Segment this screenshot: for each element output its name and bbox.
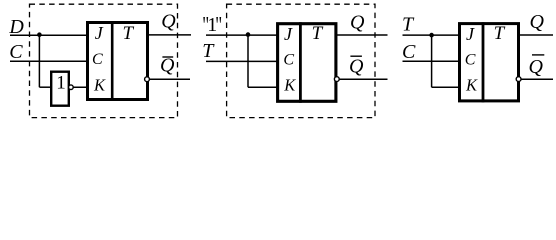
wire Q output (circuit 1)	[148, 34, 191, 36]
flip-flop U3 divider	[299, 22, 302, 103]
svg-text:Q: Q	[161, 11, 176, 33]
wire vertical branch to K (circuit 2)	[247, 35, 249, 87]
svg-text:K: K	[283, 76, 296, 95]
wire Qbar output (circuit 1)	[148, 78, 190, 80]
wire T input to J (circuit 3)	[403, 34, 461, 36]
svg-text:C: C	[465, 52, 476, 69]
svg-text:J: J	[466, 24, 475, 44]
junction dot on D wire	[37, 32, 42, 37]
wire D input	[10, 34, 87, 36]
svg-text:Q: Q	[350, 11, 365, 33]
svg-text:Q: Q	[349, 55, 364, 77]
junction dot on T wire (circuit 3)	[429, 33, 434, 38]
wire horizontal into K (circuit 2)	[248, 86, 277, 88]
junction dot on constant-1 wire	[246, 32, 251, 37]
wire C input (circuit 3)	[403, 60, 461, 62]
svg-text:C: C	[283, 52, 294, 69]
flip-flop U2 body	[88, 23, 148, 100]
wire T input to C (circuit 2)	[206, 60, 277, 62]
wire vertical branch from D junction	[38, 35, 40, 87]
wire vertical branch to K (circuit 3)	[431, 35, 433, 87]
wire Qbar output (circuit 3)	[519, 78, 554, 80]
Qbar output bubble (circuit 1)	[145, 77, 150, 82]
svg-text:T: T	[312, 23, 324, 44]
wire Q output (circuit 2)	[336, 34, 388, 36]
inverter output bubble	[69, 85, 74, 90]
flip-flop U2 divider	[111, 21, 114, 101]
flip-flop U3 body	[278, 24, 336, 102]
wire inverter output to K	[71, 86, 87, 88]
Qbar output bubble (circuit 2)	[334, 77, 339, 82]
svg-text:T: T	[123, 23, 135, 44]
node Qbar label (circuit 3)	[529, 55, 545, 78]
wire Qbar output (circuit 2)	[336, 78, 388, 80]
svg-text:C: C	[402, 41, 416, 63]
svg-text:J: J	[95, 23, 104, 43]
svg-text:K: K	[465, 76, 478, 95]
wire constant-1 to J (circuit 2)	[206, 34, 277, 36]
svg-text:K: K	[93, 75, 106, 94]
svg-text:J: J	[284, 24, 293, 44]
svg-text:C: C	[9, 41, 23, 63]
flip-flop U4 divider	[482, 22, 485, 102]
dashed enclosure box (D-trigger, circuit 1)	[30, 4, 178, 117]
node "1" constant label	[202, 14, 222, 39]
svg-text:C: C	[92, 51, 103, 68]
wire horizontal into K (circuit 3)	[432, 86, 461, 88]
node Qbar label (circuit 1)	[160, 54, 175, 76]
wire C input (circuit 1)	[10, 60, 87, 62]
svg-text:T: T	[202, 40, 215, 62]
svg-text:1: 1	[56, 72, 66, 93]
svg-text:T: T	[402, 14, 415, 36]
svg-text:Q: Q	[529, 56, 544, 78]
wire into inverter input	[39, 86, 51, 88]
dashed enclosure box (T-trigger, circuit 2)	[227, 4, 375, 117]
svg-text:T: T	[494, 23, 506, 44]
wire Q output (circuit 3)	[519, 34, 554, 36]
inverter U1 box	[51, 72, 69, 106]
Qbar output bubble (circuit 3)	[516, 77, 521, 82]
node Qbar label (circuit 2)	[349, 55, 364, 77]
svg-text:Q: Q	[530, 11, 545, 33]
flip-flop U4 body	[460, 24, 519, 101]
